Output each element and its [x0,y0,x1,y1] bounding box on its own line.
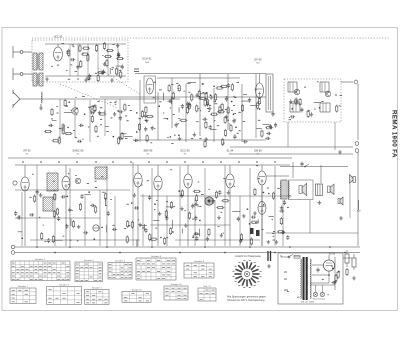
junction [178,134,180,136]
wire [241,84,243,142]
svg-text:110 127 220V~: 110 127 220V~ [301,301,316,303]
resistor R279 [131,221,133,229]
capacitor C141 [144,127,147,132]
wire PSU feed [343,257,352,259]
svg-text:Schalter 7: Schalter 7 [18,285,29,288]
label (value text) [130,109,132,111]
label (value text) [63,235,65,237]
label (value text) [272,233,274,235]
label (value text) [32,173,34,175]
capacitor C199 [286,235,289,240]
ground [280,206,284,210]
wire transformer top [292,162,294,178]
label (value text) [110,199,112,201]
capacitor C238 [191,204,194,209]
label (value text) [163,112,164,114]
resistor R239 [215,191,217,199]
resistor R126 [191,93,193,101]
resistor R266 [79,203,81,211]
filter unit enclosure (dashed) [284,79,341,122]
label (value text) [66,70,67,72]
label (designator) [112,161,114,163]
junction [235,126,237,128]
label (value text) [197,205,199,207]
tube V9 [258,171,266,185]
wire [269,215,274,217]
label (value text) [173,206,175,208]
ground [266,240,270,244]
capacitor C208 [65,224,68,229]
label (value text) [126,203,128,205]
resistor R269 [150,238,158,240]
resistor R40 [168,84,170,92]
resistor R163 [336,105,338,113]
wire box drop [287,122,289,147]
junction [319,107,321,109]
antenna terminal [355,142,359,146]
junction [329,246,331,248]
label (designator) [166,161,168,163]
label (value text) [258,100,259,102]
label (value text) [171,142,173,144]
junction [192,236,194,238]
label (value text) [53,180,55,182]
resistor R41 [178,84,180,92]
label (designator) [274,161,276,163]
junction [69,246,71,248]
wire tuner bottom [45,75,126,77]
resistor R98 [186,106,188,114]
capacitor C195 [112,228,117,231]
voltage table 10 [164,283,188,300]
resistor R87 [64,99,66,107]
resistor R95 [230,124,232,132]
capacitor C270 [251,216,256,219]
capacitor C117 [232,119,235,124]
label (value text) [70,64,72,66]
dial lamp La2 [320,292,324,296]
resistor R264 [54,193,56,201]
capacitor C289 [281,231,286,234]
label (value text) [167,137,168,139]
capacitor C202 [283,200,286,205]
wire [224,165,226,246]
capacitor C205 [90,204,95,207]
label (value text) [256,165,258,167]
resistor R132 [241,104,243,112]
capacitor C261 [80,194,83,199]
wire [249,168,251,246]
svg-text:EZ 80: EZ 80 [329,254,336,256]
label (value text) [229,123,230,125]
wire anode bus [135,73,266,75]
label (value text) [147,180,149,182]
label (value text) [155,227,157,229]
wire main second bus [15,164,290,166]
resistor R30 [120,71,122,79]
ground [220,233,224,237]
junction [84,113,86,115]
capacitor C25 [86,77,91,80]
ground in tuner [45,77,49,81]
antenna terminal A1 [13,46,23,58]
wire [69,168,71,246]
label (value text) [321,101,323,103]
resistor R160 [299,98,301,106]
wire [198,229,200,237]
ground [100,70,104,74]
tube V6 [154,176,162,190]
IF transformer T3 [43,197,53,211]
label (value text) [86,76,88,78]
capacitor C183 [206,237,209,242]
label (value text) [75,96,76,98]
label (value text) [124,228,126,230]
wire [117,44,119,76]
svg-text:Schalter 8: Schalter 8 [132,288,143,291]
label (value text) [29,196,31,198]
speaker LS4 [338,197,343,205]
resistor R62 [62,127,64,135]
tube V10 [258,202,266,215]
ground [193,132,197,136]
label (value text) [280,255,282,257]
junction [131,202,133,204]
wire [186,83,190,85]
label (value text) [73,46,75,48]
resistor R82 [44,130,52,132]
label (value text) [75,174,76,176]
label (value text) [273,230,275,232]
resistor R175 [196,194,198,202]
wire [171,78,173,128]
junction [249,223,251,225]
resistor R59 [95,125,97,133]
wire tube leads [157,165,159,246]
wire [54,239,63,241]
capacitor C80 [300,162,303,167]
wire [54,194,56,246]
label (value text) [18,215,20,217]
wire [314,102,321,104]
wire [227,74,229,130]
capacitor C166 [290,115,295,118]
junction [158,105,160,107]
wire AM row [30,239,140,241]
label (value text) [82,95,85,97]
label (value text) [287,206,289,208]
label (value text) [340,94,342,96]
svg-text:Schalter 6: Schalter 6 [59,283,70,286]
resistor R55 [220,85,228,87]
resistor R105 [221,103,223,111]
capacitor C232 [194,203,199,206]
UKW tuner enclosure (dashed box) [32,40,128,82]
voltage table 6 [85,286,110,304]
ground [178,136,182,140]
resistor R265 [193,190,201,192]
voltage table 2 [75,259,103,282]
wire [204,168,206,246]
capacitor C107 [144,113,147,118]
resistor R18 [81,53,89,55]
label (value text) [239,130,241,132]
label (value text) [184,90,185,92]
wire [52,119,56,121]
voltage table 9 [184,260,214,278]
capacitor C3 [66,50,69,55]
label (value text) [255,88,257,90]
capacitor C194 [194,216,197,221]
label (value text) [95,186,97,188]
resistor R108 [224,116,226,124]
ground [117,54,121,58]
resistor R139 [258,97,260,105]
wire HT [312,264,324,266]
wire [243,93,247,95]
label (value text) [82,138,83,140]
junction [233,113,235,115]
label (value text) [63,125,65,127]
junction [113,136,115,138]
wire transformer top [320,165,322,183]
wire [124,136,132,138]
ground [184,223,188,227]
label (value text) [196,121,198,123]
label (value text) [100,118,102,120]
label (value text) [104,112,105,114]
label (value text) [170,169,172,171]
label (value text) [45,241,47,243]
junction [106,246,108,248]
svg-text:EF 89: EF 89 [255,57,262,61]
wire tube leads [187,165,189,246]
label (value text) [142,227,144,229]
svg-text:Schalter 9: Schalter 9 [194,260,205,263]
wire speaker right rail [349,184,351,218]
label (value text) [71,109,73,111]
label (value text) [307,110,309,112]
label (value text) [126,120,128,122]
label (value text) [289,195,291,197]
label (value text) [92,105,95,107]
svg-text:EABC 80: EABC 80 [73,149,84,153]
resistor R226 [53,210,55,218]
voltage table 7 [122,288,151,302]
wire [139,80,141,142]
resistor R133 [204,140,206,148]
label (value text) [209,104,211,106]
wire [179,166,181,246]
resistor R95 [335,274,337,282]
junction [289,246,291,248]
label (value text) [191,137,193,139]
svg-text:EBF 89: EBF 89 [144,149,153,153]
label (value text) [223,232,224,234]
junction [88,191,90,193]
junction [151,246,153,248]
capacitor C14 [121,65,124,70]
label (value text) [208,110,210,112]
junction [167,118,169,120]
ground [133,193,137,197]
label (value text) [327,294,328,296]
label (value text) [87,182,89,184]
tuning gang coupling (dashed) [98,68,140,94]
label (value text) [215,103,218,105]
resistor R58 [58,136,60,144]
junction [136,131,138,133]
label (value text) [114,101,116,103]
label (value text) [255,221,256,223]
wire [163,118,168,120]
label (value text) [112,43,114,45]
ground [310,112,314,116]
label (value text) [75,137,77,139]
capacitor C171 [266,132,271,135]
ground in tuner [110,78,114,82]
label (value text) [171,83,173,85]
wire [282,200,284,246]
junction [172,231,174,233]
label (value text) [289,116,290,118]
label (value text) [68,78,71,80]
wire [256,128,262,130]
wire [114,196,116,246]
wire [261,186,263,246]
svg-text:ECC 85: ECC 85 [180,149,190,153]
junction [268,193,270,195]
svg-text:ECH 81: ECH 81 [142,57,152,61]
wire [84,196,86,246]
label (value text) [51,65,53,67]
capacitor C176 [14,211,17,216]
speaker LS2 [328,184,335,194]
resistor R285 [280,217,282,225]
capacitor C207 [165,216,168,221]
label (designator) [95,161,97,163]
label (value text) [170,107,171,109]
label (value text) [88,79,90,81]
junction [231,101,233,103]
resistor R45 [231,83,233,91]
tube V3 [21,177,29,191]
resistor R135 [256,102,258,110]
wire [87,44,89,76]
label (value text) [100,124,102,126]
capacitor C101 [209,125,212,130]
capacitor C32 [206,101,209,106]
svg-text:Schalter 8: Schalter 8 [151,255,162,258]
label (value text) [68,173,69,175]
resistor R12 [79,44,81,52]
label (value text) [153,97,155,99]
junction [247,208,249,210]
filter coil L10 [288,82,297,92]
wire [70,219,72,226]
svg-text:EM 80: EM 80 [254,149,262,153]
svg-text:UCC 85: UCC 85 [54,36,63,39]
label (value text) [174,134,176,136]
ground [98,110,102,114]
junction [76,108,78,110]
capacitor C242 [83,231,88,234]
label (value text) [258,178,260,180]
transformer secondary winding [310,259,311,299]
resistor R173 [250,237,252,245]
capacitor C95 [316,268,319,273]
wire EF89 plate [259,74,261,83]
voltage table 11 [198,286,216,301]
resistor R116 [196,104,198,112]
capacitor C89 [77,140,82,143]
label winding taps [284,271,287,273]
ground [333,280,337,284]
resistor R214 [127,220,129,228]
svg-text:Chassis bei 220 V, Netzspannun: Chassis bei 220 V, Netzspannung [227,299,265,302]
capacitor C127 [186,101,189,106]
label (value text) [59,127,61,129]
wire tube leads [65,165,67,246]
ground L2 [39,106,43,110]
voltage table 1 [11,258,70,281]
dipole antenna [13,90,20,108]
capacitor C80 [119,116,122,121]
junction [199,220,201,222]
junction [204,246,206,248]
resistor R21 [80,60,82,68]
junction [202,83,204,85]
capacitor C121 [187,104,192,107]
wire [109,68,111,74]
resistor R218 [254,188,256,196]
resistor R52 [172,92,174,100]
wire [257,219,259,223]
label (value text) [177,87,179,89]
wire [241,100,249,102]
wire [89,100,91,142]
capacitor C142 [233,134,236,139]
resistor R100 [205,92,207,100]
label (value text) [214,101,217,103]
wire FM feed [20,98,180,100]
svg-text:RF 90: RF 90 [23,149,31,153]
label (value text) [231,109,233,111]
capacitor C120 [225,97,228,102]
label (value text) [189,103,191,105]
label (value text) [317,81,319,83]
capacitor C193 [279,209,284,212]
label (value text) [76,114,77,116]
label (designator) [40,161,42,163]
ground [217,215,221,219]
wire tube leads [24,165,26,246]
resistor R283 [105,192,107,200]
capacitor C228 [134,206,139,209]
resistor R20 [51,108,53,116]
dipole output terminal [354,80,358,84]
resistor R15 [106,49,114,51]
label (value text) [331,265,333,267]
ground [208,106,212,110]
electrolytic C92 [352,254,356,270]
junction [259,108,261,110]
label (value text) [128,224,130,226]
junction [210,94,212,96]
wire [140,225,147,227]
ground near terminals [338,150,342,154]
wire [36,165,38,246]
